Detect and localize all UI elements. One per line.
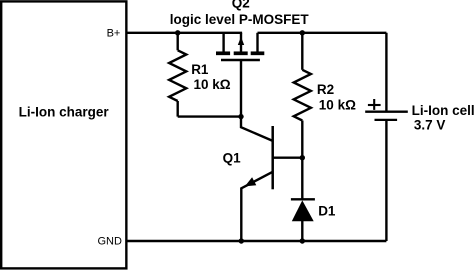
svg-text:D1: D1 <box>318 204 336 219</box>
svg-text:10 kΩ: 10 kΩ <box>194 77 231 92</box>
svg-text:logic level P-MOSFET: logic level P-MOSFET <box>170 12 310 27</box>
Q2 channel bar right (drain) <box>251 51 265 55</box>
Q2 gate bar <box>221 59 260 61</box>
svg-text:Q1: Q1 <box>223 151 242 166</box>
battery cell Li-Ion positive plate <box>365 111 408 113</box>
node gate junction dot <box>238 114 243 119</box>
wire R1 bottom to gate node <box>178 115 241 117</box>
svg-text:Li-Ion charger: Li-Ion charger <box>19 105 110 120</box>
transistor Q1 NPN <box>241 117 302 241</box>
wire right rail bottom <box>385 121 387 241</box>
diode D1 <box>291 158 315 241</box>
svg-text:R2: R2 <box>317 82 334 97</box>
wire right rail top <box>385 33 387 111</box>
svg-text:R1: R1 <box>191 62 209 77</box>
wire B+ rail <box>126 32 242 34</box>
wire drain rail <box>258 32 387 34</box>
plus sign polarity mark <box>368 99 381 110</box>
D1 cathode bar <box>291 198 315 200</box>
D1 triangle <box>292 200 314 221</box>
svg-text:B+: B+ <box>107 27 121 39</box>
node junction dot base/R2/D1 <box>300 155 305 160</box>
op-amp: none; transistor Q2 P-MOSFET <box>216 33 264 117</box>
Q2 source drop wire <box>222 33 224 52</box>
Q2 channel bar middle (body) <box>234 51 248 55</box>
D1 bottom lead wire <box>301 220 303 241</box>
node junction dot emitter/GND <box>239 238 244 243</box>
svg-text:3.7 V: 3.7 V <box>414 118 446 133</box>
resistor R1 <box>169 33 186 117</box>
Q2 body connection with arrow <box>240 33 242 52</box>
resistor R2 <box>294 33 311 158</box>
svg-text:GND: GND <box>98 236 123 248</box>
svg-text:10 kΩ: 10 kΩ <box>319 98 356 113</box>
Q1 base lead wire <box>273 156 303 158</box>
Q2 drain drop wire <box>256 33 258 52</box>
svg-text:Li-Ion cell: Li-Ion cell <box>412 103 474 118</box>
battery cell negative plate <box>375 119 398 121</box>
Q1 emitter wire with arrow <box>241 172 272 241</box>
D1 top lead wire <box>301 158 303 200</box>
node junction dot D1/GND <box>300 238 305 243</box>
svg-text:Q2: Q2 <box>232 0 250 10</box>
node junction dot R1/B+ <box>175 30 180 35</box>
Q2 channel bar left (source) <box>216 51 230 55</box>
Q1 base bar <box>271 126 274 189</box>
Q2 gate lead wire <box>240 60 242 117</box>
Li-Ion charger box <box>1 1 126 268</box>
wire GND rail <box>126 240 386 242</box>
Q1 collector wire to gate node <box>241 117 273 141</box>
node junction dot R2/drain <box>300 30 305 35</box>
